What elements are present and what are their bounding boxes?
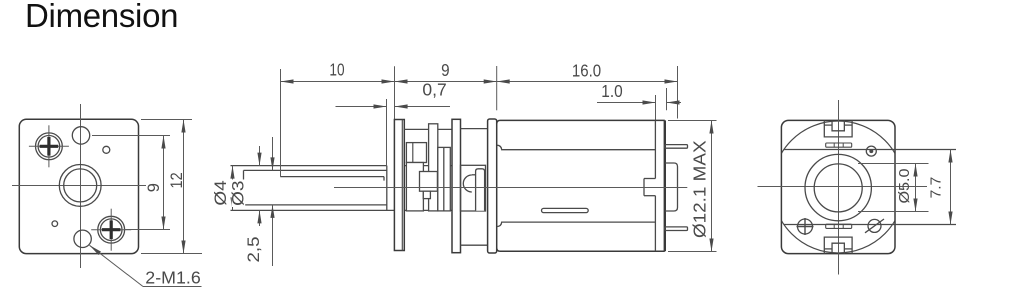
svg-text:Ø4: Ø4: [211, 180, 229, 205]
svg-text:Ø5.0: Ø5.0: [897, 168, 913, 203]
svg-text:16.0: 16.0: [572, 61, 601, 80]
svg-text:9: 9: [145, 183, 163, 192]
svg-text:0,7: 0,7: [422, 80, 446, 100]
svg-text:2-M1.6: 2-M1.6: [145, 267, 200, 287]
svg-text:Ø12.1 MAX: Ø12.1 MAX: [689, 140, 709, 238]
svg-text:1.0: 1.0: [601, 82, 622, 101]
svg-text:12: 12: [168, 172, 186, 188]
svg-text:10: 10: [329, 61, 344, 80]
svg-text:Ø3: Ø3: [229, 180, 247, 205]
svg-text:7.7: 7.7: [928, 177, 945, 199]
svg-text:9: 9: [441, 61, 449, 80]
svg-text:2,5: 2,5: [244, 237, 263, 263]
